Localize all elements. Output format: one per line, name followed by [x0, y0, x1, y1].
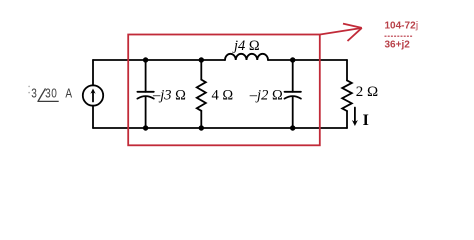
svg-text:3: 3 [31, 88, 37, 101]
svg-text:2 Ω: 2 Ω [356, 84, 378, 100]
svg-text:I: I [363, 112, 369, 129]
svg-text:–j2 Ω: –j2 Ω [249, 88, 283, 104]
svg-text:j4 Ω: j4 Ω [232, 38, 260, 54]
svg-text:104-72j: 104-72j [385, 21, 419, 32]
svg-text:–j3 Ω: –j3 Ω [152, 88, 186, 104]
svg-text:30: 30 [45, 88, 57, 101]
svg-text:A: A [65, 88, 72, 101]
svg-text:36+j2: 36+j2 [385, 40, 411, 51]
svg-text:4 Ω: 4 Ω [212, 88, 234, 104]
